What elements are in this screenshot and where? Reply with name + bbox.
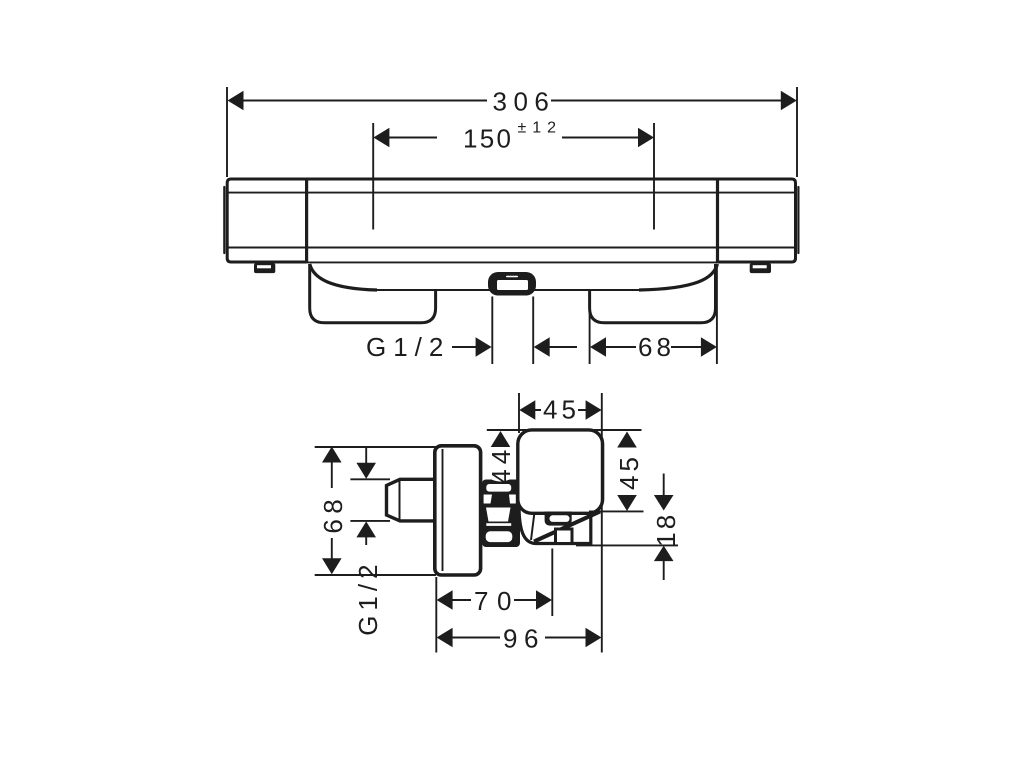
dim 306 line [242,100,781,102]
svg-text:96: 96 [503,624,545,654]
left end-cap divider [305,179,308,262]
dim 68 left arrow down [322,558,342,574]
dim 70 arrow left [437,590,453,610]
nut white dash [486,523,511,526]
handle chin [519,505,591,544]
dim 96 line [452,637,587,639]
body left end-cap [227,179,306,262]
dim 45 top arrow right [586,400,602,420]
dim 68 front line [605,346,702,348]
dim G1/2 front arrow [476,337,492,357]
escutcheon rosette [435,446,481,575]
dim G1/2 front extension left [491,297,493,365]
body inner bottom line [227,247,796,249]
center outlet [488,272,536,296]
dim 306 extension line right [796,87,798,177]
dim G1/2 side arrow down [356,463,376,479]
dim 45 right arrow down [617,495,637,511]
stub extension line bottom [350,520,390,522]
dim 68 left arrow up [322,447,342,463]
stub extension line top [350,478,390,480]
dim 45 right arrow up [617,432,637,448]
dim 150 line [389,137,640,139]
dim 45 top extension left [518,393,520,433]
dim 45 top arrow left [519,400,535,420]
body bottom thin line [305,261,719,263]
svg-text:G1/2: G1/2 [353,559,383,635]
dim 70 arrow right [536,590,552,610]
dim 70/96 extension left [435,577,437,653]
nut flank left [484,495,492,504]
dim 18 lower line [663,561,665,581]
dim 150 arrow right [638,128,654,148]
handle square [518,430,603,513]
rosette face line [442,449,444,571]
nut flank right [509,495,516,504]
body underside right curve [639,264,717,290]
svg-text:68: 68 [638,332,675,362]
svg-text:G1/2: G1/2 [366,332,450,362]
dim 45 top line [534,409,587,411]
dim 70 extension right [551,549,553,617]
dim 68 left extension top [315,446,436,448]
svg-text:70: 70 [474,586,520,616]
dim 96 arrow right [586,628,602,648]
extension line y430 [487,429,642,431]
lever button tab [545,512,572,526]
svg-text:45: 45 [614,453,644,490]
dim 68 front arrow right [701,337,717,357]
dim 68 front extension left [589,293,591,365]
dim 306 arrow left [228,91,244,111]
dim G1/2 front leader [452,346,477,348]
stub chamfer line [399,481,401,520]
dim 18 upper line [663,474,665,498]
svg-text:18: 18 [651,512,681,547]
body right end-cap bulge [797,187,799,253]
dim 44 arrow up [491,431,511,447]
extension line y512.6 [589,510,644,512]
outlet gap leader [550,346,578,348]
dim 68 left line bottom [331,538,333,561]
dim 68 left line top [331,461,333,488]
lever diagonal [534,512,600,542]
dim 96 arrow left [437,628,453,648]
dim 150 arrow left [373,128,389,148]
right escutcheon pill [590,264,716,323]
right mounting tab [750,263,771,273]
dim 18 arrow down [654,495,674,511]
dim 68 left extension bottom [315,574,436,576]
dim G1/2 side lower line [365,536,367,545]
svg-text:45: 45 [543,395,580,425]
body right end-cap [718,179,796,262]
svg-text:±12: ±12 [518,120,563,137]
nut window top [486,484,511,492]
left mounting tab [254,263,275,273]
lever slot white [550,515,570,522]
outlet gap arrow [534,337,550,357]
body top edge [305,178,719,181]
G1/2 stub [387,479,435,521]
right end-cap divider [716,179,719,262]
shared extension right (45 top / 96) [601,393,603,653]
dim 18 arrow up [654,546,674,562]
dim 150 extension line right [653,123,655,230]
svg-text:68: 68 [318,494,348,534]
left escutcheon pill [310,264,436,323]
lever edge line [531,512,535,540]
body underside left curve [310,264,377,290]
svg-text:306: 306 [493,87,556,117]
body inner top line [227,192,796,194]
dim 306 extension line left [226,87,228,177]
dim G1/2 side upper line [365,446,367,466]
extension line y546.6 [576,544,678,546]
dim 44 arrow down (over nut) [491,493,510,507]
nut top sliver [492,480,510,482]
svg-text:44: 44 [486,445,516,484]
dim 68 front arrow left [590,337,606,357]
lever window square [556,529,573,544]
dim 68 front extension right [716,266,718,364]
nut window middle [486,508,511,522]
dim 150 extension line left [372,123,374,230]
nut window bottom [486,531,513,542]
dim 70 line [452,599,538,601]
body left end-cap bulge [223,187,225,253]
dim G1/2 front extension right [532,297,534,365]
union nut body [482,480,520,548]
body underside silhouette line [376,289,640,291]
svg-text:150: 150 [463,124,513,154]
dim 306 arrow right [781,91,797,111]
dim G1/2 side arrow up [356,521,376,537]
